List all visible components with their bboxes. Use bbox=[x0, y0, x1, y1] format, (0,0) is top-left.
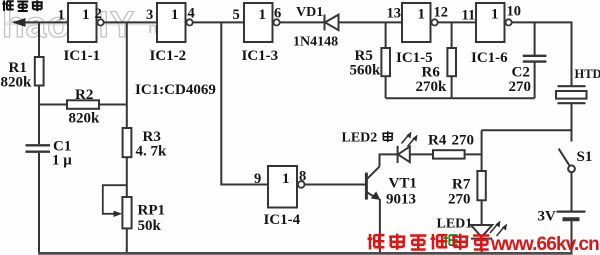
svg-text:270: 270 bbox=[509, 79, 532, 95]
wire R1 branch vertical bbox=[38, 22, 40, 104]
wire C2 branch bbox=[534, 22, 536, 98]
svg-text:1: 1 bbox=[58, 8, 65, 24]
wire HTD bottom to switch node bbox=[571, 104, 573, 142]
resistor R6 bbox=[447, 48, 456, 76]
svg-text:270: 270 bbox=[452, 133, 475, 149]
svg-text:IC1:CD4069: IC1:CD4069 bbox=[135, 82, 216, 98]
ground/bottom supply rail bbox=[38, 252, 573, 255]
svg-text:8: 8 bbox=[299, 169, 306, 185]
svg-text:1: 1 bbox=[82, 7, 90, 23]
wire R5 branch bbox=[385, 22, 387, 98]
inverter IC1-4 bbox=[268, 166, 305, 208]
svg-text:1: 1 bbox=[171, 7, 179, 23]
wire IC1-2 output to IC1-3 input bbox=[193, 21, 244, 23]
diode VD1 bbox=[325, 15, 339, 31]
wire R7 to LED1 bbox=[481, 200, 483, 225]
svg-text:LED2: LED2 bbox=[342, 131, 378, 146]
wire LED2 to R4 bbox=[410, 153, 433, 155]
inverter IC1-2 bbox=[157, 3, 193, 42]
wire IC1-1 output to IC1-2 input bbox=[104, 21, 157, 23]
probe arrow bbox=[12, 18, 26, 27]
svg-text:1 μ: 1 μ bbox=[52, 153, 72, 169]
resistor R5 bbox=[381, 48, 390, 76]
svg-text:VT1: VT1 bbox=[389, 176, 417, 192]
wire IC1-2 output junction down to IC1-4 input bbox=[221, 22, 268, 184]
inverter IC1-6 bbox=[476, 3, 512, 42]
wire IC1-5 output to IC1-6 input bbox=[438, 21, 476, 23]
watermark red text bbox=[368, 234, 490, 250]
svg-text:270: 270 bbox=[448, 192, 471, 208]
svg-text:IC1-1: IC1-1 bbox=[64, 48, 101, 64]
resistor R2 bbox=[67, 100, 99, 109]
svg-text:50k: 50k bbox=[138, 218, 162, 234]
wire LED1 cathode to ground rail bbox=[481, 239, 483, 254]
svg-text:HTD: HTD bbox=[575, 67, 600, 81]
probe label 测试棒 bbox=[2, 0, 42, 11]
svg-text:6: 6 bbox=[274, 6, 281, 22]
wire IC1-4 output to VT1 base bbox=[305, 184, 365, 186]
label LED2 color 红 bbox=[382, 131, 393, 142]
svg-text:560k: 560k bbox=[350, 63, 382, 79]
svg-text:S1: S1 bbox=[577, 149, 593, 165]
inverter IC1-1 bbox=[68, 3, 104, 42]
svg-text:1N4148: 1N4148 bbox=[293, 35, 338, 50]
wire IC1-6 output to HTD branch bbox=[512, 22, 572, 85]
resistor R4 bbox=[433, 150, 465, 158]
svg-text:IC1-2: IC1-2 bbox=[150, 48, 187, 64]
svg-text:10: 10 bbox=[507, 4, 522, 20]
svg-text:12: 12 bbox=[434, 5, 449, 21]
wire mid horizontal R4 node to switch node bbox=[482, 129, 572, 131]
wire S1 to battery bbox=[571, 172, 573, 210]
wire battery minus to ground rail bbox=[571, 221, 573, 254]
inverter IC1-3 bbox=[244, 3, 280, 42]
svg-text:IC1-4: IC1-4 bbox=[264, 212, 301, 228]
battery 3V bbox=[557, 212, 586, 220]
wire VT1 collector to LED2 bbox=[380, 154, 398, 166]
capacitor C2 bbox=[523, 56, 547, 62]
svg-text:820k: 820k bbox=[69, 111, 101, 127]
potentiometer RP1 bbox=[103, 185, 132, 228]
wire VT1 emitter to ground rail bbox=[379, 199, 381, 253]
LED1 green bbox=[471, 221, 507, 239]
wire oscillator bottom rail bbox=[386, 97, 535, 99]
resistor R3 bbox=[123, 128, 132, 157]
switch S1 bbox=[559, 149, 575, 173]
svg-text:R2: R2 bbox=[75, 87, 93, 103]
svg-text:R7: R7 bbox=[452, 177, 471, 193]
svg-text:3V: 3V bbox=[538, 209, 557, 225]
svg-text:4: 4 bbox=[188, 6, 195, 22]
piezo buzzer HTD bbox=[556, 86, 587, 103]
svg-text:RP1: RP1 bbox=[138, 203, 166, 219]
svg-text:9: 9 bbox=[254, 171, 261, 187]
svg-text:2: 2 bbox=[95, 6, 102, 22]
wire feedback vertical through R3 RP1 bbox=[126, 22, 128, 253]
wire C1 branch vertical bbox=[38, 105, 40, 254]
svg-text:11: 11 bbox=[462, 8, 476, 24]
svg-text:9013: 9013 bbox=[386, 192, 416, 208]
capacitor C1 bbox=[26, 145, 51, 151]
svg-text:820k: 820k bbox=[1, 75, 33, 91]
wire R4 to node up/down bbox=[465, 130, 482, 171]
svg-text:www.66kv.cn: www.66kv.cn bbox=[490, 234, 599, 255]
transistor VT1 bbox=[366, 167, 380, 200]
label LED1 color 绿 bbox=[444, 234, 458, 247]
svg-text:VD1: VD1 bbox=[296, 5, 323, 20]
LED2 red bbox=[398, 132, 418, 164]
svg-text:4. 7k: 4. 7k bbox=[136, 144, 168, 160]
svg-text:1: 1 bbox=[491, 7, 499, 23]
resistor R1 bbox=[35, 57, 44, 86]
wire VD1 anode to IC1-5 input bbox=[339, 21, 402, 23]
svg-text:IC1-6: IC1-6 bbox=[471, 50, 508, 66]
svg-text:R4: R4 bbox=[428, 133, 447, 149]
svg-text:1: 1 bbox=[282, 171, 290, 187]
wire node A to R2 and R2 to feedback line bbox=[39, 104, 127, 106]
wire probe to IC1-1 input bbox=[14, 21, 68, 23]
svg-text:1: 1 bbox=[259, 7, 267, 23]
svg-text:5: 5 bbox=[233, 7, 240, 23]
resistor R7 bbox=[477, 171, 485, 200]
svg-text:LED1: LED1 bbox=[437, 217, 473, 232]
svg-text:270k: 270k bbox=[416, 79, 448, 95]
svg-text:IC1-3: IC1-3 bbox=[242, 48, 279, 64]
svg-text:1: 1 bbox=[418, 7, 426, 23]
svg-text:3: 3 bbox=[146, 7, 153, 23]
wire IC1-3 output to VD1 cathode bbox=[280, 21, 324, 23]
wire R6 branch bbox=[451, 22, 453, 98]
inverter IC1-5 bbox=[402, 3, 438, 42]
svg-text:13: 13 bbox=[387, 6, 402, 22]
